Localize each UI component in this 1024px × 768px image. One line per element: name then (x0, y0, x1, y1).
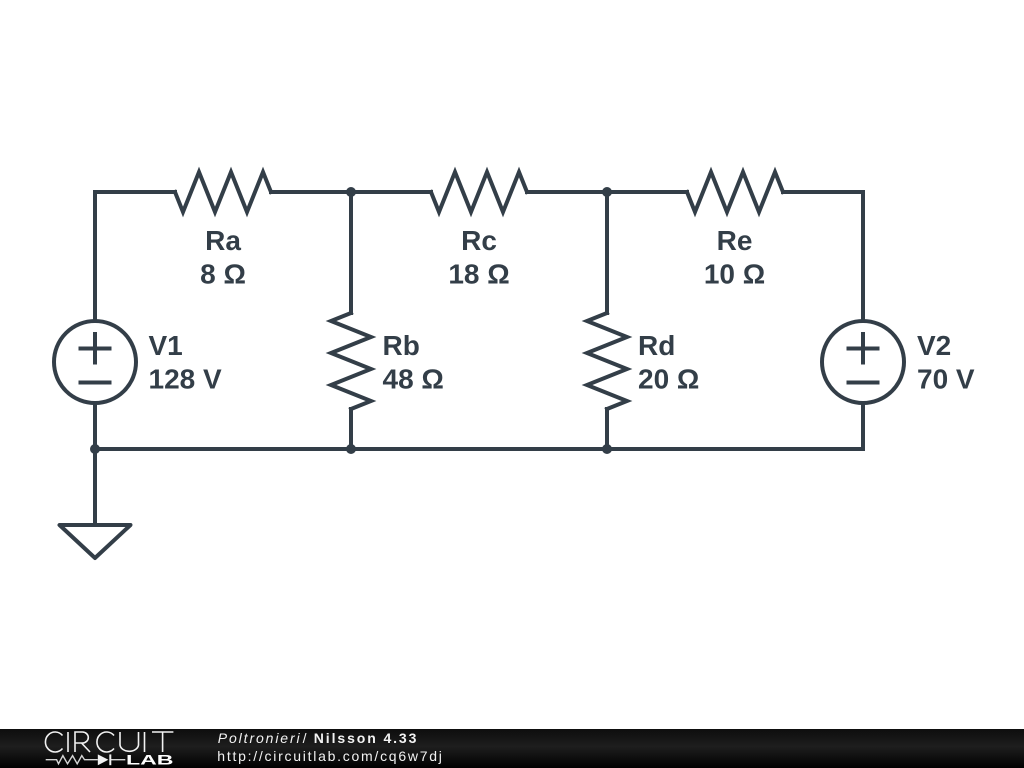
label Re value (704, 225, 765, 290)
svg-text:48 Ω: 48 Ω (383, 364, 444, 395)
svg-text:Rd: Rd (638, 330, 675, 361)
footer title text (217, 730, 443, 764)
wire Rd bottom to bus (605, 409, 609, 449)
svg-text:http://circuitlab.com/cq6w7dj: http://circuitlab.com/cq6w7dj (217, 748, 443, 764)
wire Ra right to node A (271, 190, 351, 194)
wire V2 bottom to bus (861, 403, 865, 449)
wire V1 top to Ra left (95, 192, 175, 321)
label Ra value (200, 225, 246, 290)
svg-text:10 Ω: 10 Ω (704, 259, 765, 290)
svg-text:Poltronieri: Poltronieri (218, 730, 302, 746)
footer bar (0, 729, 1024, 768)
resistor Rb (331, 313, 371, 409)
resistor Ra (175, 172, 271, 212)
node Rb bottom (346, 444, 356, 454)
wire node A to Rb top (349, 192, 353, 313)
svg-text:LAB: LAB (126, 752, 174, 768)
label Rd value (638, 330, 699, 395)
resistor Rc (431, 172, 527, 212)
wire Rb bottom to bus (349, 409, 353, 449)
label V1 value (149, 330, 222, 395)
wire V1 bottom to bus (93, 403, 97, 449)
wire node B to Rd top (605, 192, 609, 313)
logo diode cathode bar (109, 754, 111, 765)
node B (602, 187, 612, 197)
voltage source V1 (54, 321, 136, 403)
node Rd bottom (602, 444, 612, 454)
label Rc value (448, 225, 509, 290)
svg-text:128 V: 128 V (149, 364, 222, 395)
svg-text:Rb: Rb (383, 330, 420, 361)
logo diode triangle (98, 754, 109, 765)
node A (346, 187, 356, 197)
svg-text:Rc: Rc (461, 225, 497, 256)
resistor Re (687, 172, 783, 212)
resistor Rd (587, 313, 627, 409)
logo resistor-diode glyph (46, 756, 126, 764)
svg-text:/: / (303, 730, 307, 746)
svg-text:18 Ω: 18 Ω (448, 259, 509, 290)
svg-text:V1: V1 (149, 330, 183, 361)
svg-text:Re: Re (717, 225, 753, 256)
svg-text:8 Ω: 8 Ω (200, 259, 246, 290)
node ground junction (90, 444, 100, 454)
svg-text:Nilsson 4.33: Nilsson 4.33 (314, 730, 419, 746)
wire bottom bus (95, 447, 863, 451)
ground (60, 449, 131, 558)
label Rb value (383, 330, 444, 395)
voltage source V2 (822, 321, 904, 403)
wire node B to Re left (607, 190, 687, 194)
svg-text:70 V: 70 V (917, 364, 975, 395)
svg-text:Ra: Ra (205, 225, 241, 256)
label V2 value (917, 330, 975, 395)
wire Rc right to node B (527, 190, 607, 194)
svg-text:20 Ω: 20 Ω (638, 364, 699, 395)
logo CIRCUIT wordmark (45, 732, 173, 752)
wire Re right to V2 top (783, 192, 863, 321)
svg-text:V2: V2 (917, 330, 951, 361)
wire node A to Rc left (351, 190, 431, 194)
